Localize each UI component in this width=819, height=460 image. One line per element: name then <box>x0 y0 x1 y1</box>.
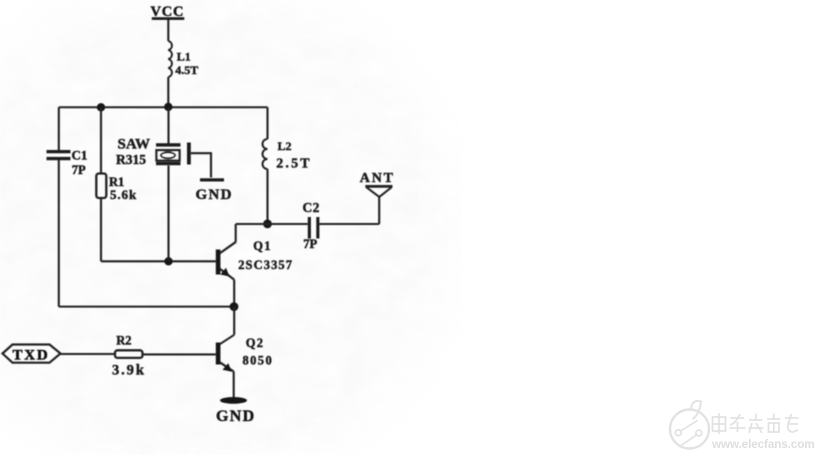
wire emitter node to Q2 collector <box>233 307 235 335</box>
wire C2 to antenna <box>319 223 379 225</box>
wire TXD to R2 <box>61 353 116 355</box>
wire left branch upper <box>58 107 60 150</box>
wire left branch lower <box>58 160 60 307</box>
node collector junction <box>263 220 272 229</box>
node SAW base junction <box>164 257 172 265</box>
watermark logo elecfans <box>670 401 709 449</box>
svg-text:L2: L2 <box>278 139 292 153</box>
wire Q1 emitter <box>233 280 235 307</box>
wire Q2 base <box>143 353 216 355</box>
inductor L2 <box>263 139 312 172</box>
wire Q1 base <box>101 260 216 262</box>
svg-text:2SC3357: 2SC3357 <box>238 258 293 272</box>
wire VCC to L1 <box>167 20 169 42</box>
svg-text:GND: GND <box>196 187 233 203</box>
ground GND SAW case <box>196 178 233 203</box>
transistor Q1 <box>216 239 293 280</box>
wire collector to C2 <box>236 223 308 225</box>
wire bus to L2 <box>266 107 268 139</box>
antenna ANT <box>360 171 395 224</box>
svg-text:SAW: SAW <box>118 137 151 153</box>
svg-text:GND: GND <box>216 408 255 425</box>
ground GND Q2 emitter <box>216 397 255 425</box>
resistor R2 <box>112 334 146 379</box>
wire Q1 collector <box>235 224 237 242</box>
svg-text:L1: L1 <box>177 50 191 64</box>
wire case to ground <box>191 153 211 177</box>
node emitter junction <box>230 302 239 311</box>
svg-text:3.9k: 3.9k <box>112 363 146 379</box>
capacitor C1 <box>47 148 88 178</box>
svg-text:8050: 8050 <box>243 353 274 367</box>
wire SAW bottom <box>167 166 169 262</box>
svg-text:Q1: Q1 <box>253 239 271 253</box>
transistor Q2 <box>216 335 273 372</box>
svg-text:www.elecfans.com: www.elecfans.com <box>711 438 815 451</box>
svg-text:7P: 7P <box>303 237 317 251</box>
wire top bus <box>59 106 268 108</box>
resistor R1 <box>96 174 137 203</box>
capacitor C2 <box>303 200 320 251</box>
SAW case electrode <box>187 143 191 165</box>
svg-text:TXD: TXD <box>13 348 50 364</box>
wire SAW top <box>167 107 169 143</box>
svg-text:2.5T: 2.5T <box>276 157 312 172</box>
svg-text:ANT: ANT <box>360 171 395 186</box>
port TXD <box>3 345 61 364</box>
svg-text:5.6k: 5.6k <box>110 187 137 202</box>
node bus R1 junction <box>97 103 105 111</box>
svg-text:Q2: Q2 <box>246 336 264 350</box>
wire emitter bus <box>59 306 234 308</box>
watermark text dianzifashaoyou <box>713 413 799 434</box>
scanned paper texture backdrop <box>0 0 462 455</box>
wire R1 top <box>100 107 102 173</box>
svg-text:7P: 7P <box>72 163 86 177</box>
svg-text:C2: C2 <box>303 200 320 215</box>
wire L2 to collector node <box>266 169 268 224</box>
SAW resonator R315 <box>116 137 181 168</box>
svg-text:4.5T: 4.5T <box>175 63 198 77</box>
inductor L1 <box>168 41 198 77</box>
svg-text:R2: R2 <box>116 334 131 348</box>
svg-text:C1: C1 <box>72 148 88 163</box>
node bus VCC junction <box>164 103 172 111</box>
power rail VCC <box>151 4 185 20</box>
wire L1 to bus <box>167 77 169 107</box>
svg-text:R315: R315 <box>116 152 146 167</box>
wire R1 bottom <box>100 198 102 261</box>
wire Q2 emitter <box>233 372 235 399</box>
